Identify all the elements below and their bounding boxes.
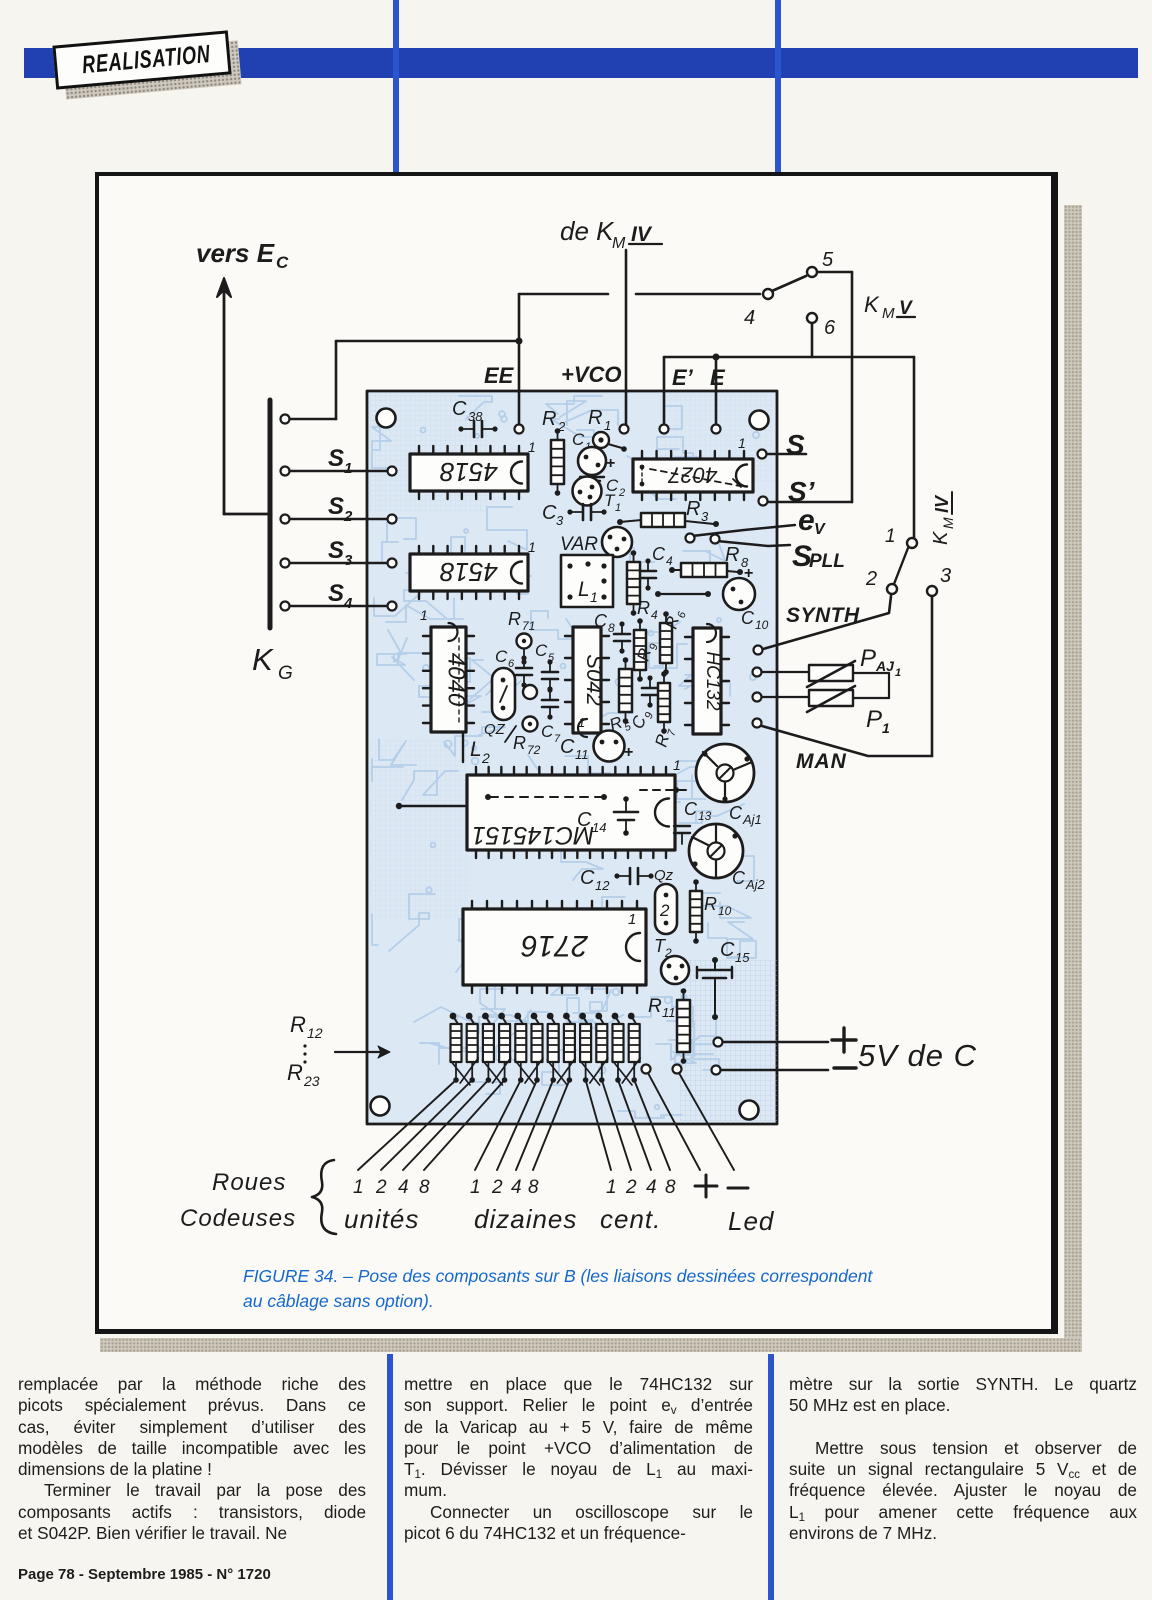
svg-text:C: C <box>741 608 755 628</box>
capacitor C15 <box>697 939 750 1020</box>
wire E net horizontal <box>664 354 914 539</box>
resistor R13 <box>466 1013 478 1083</box>
svg-text:EE: EE <box>484 363 515 388</box>
wire S1 <box>281 467 397 476</box>
svg-text:4: 4 <box>744 307 755 329</box>
resistor R7 <box>652 671 679 750</box>
svg-text:71: 71 <box>522 619 535 633</box>
svg-text:2716: 2716 <box>521 929 589 962</box>
pin SPLL junction <box>711 535 720 544</box>
svg-text:1: 1 <box>885 526 896 547</box>
potentiometer PAJ1 <box>753 661 890 687</box>
svg-text:C: C <box>572 430 585 449</box>
switch KM IV lever 1-2 <box>894 548 908 584</box>
switch KM V contact 6 <box>807 313 836 339</box>
svg-text:e: e <box>798 504 815 537</box>
svg-text:S: S <box>328 580 344 607</box>
svg-text:R: R <box>290 1012 306 1037</box>
wire ev <box>692 525 795 536</box>
svg-text:1: 1 <box>578 715 585 730</box>
capacitor C38 <box>452 398 498 437</box>
svg-text:L: L <box>470 738 482 761</box>
svg-text:S: S <box>328 493 344 520</box>
svg-text:+: + <box>744 565 753 582</box>
switch KM IV contact 1 <box>885 526 917 548</box>
switch KM V contact 5 <box>807 249 834 277</box>
resistor R11 <box>648 988 690 1064</box>
svg-text:E: E <box>710 365 726 390</box>
label L2 <box>470 738 490 766</box>
top column divider blue line 1 <box>393 0 399 173</box>
wire contact 6 to E net <box>811 323 814 357</box>
svg-text:10: 10 <box>718 904 732 918</box>
svg-text:8: 8 <box>665 1177 676 1198</box>
label dots <box>303 1044 306 1063</box>
svg-text:11: 11 <box>662 1005 676 1020</box>
capacitor C9 <box>628 675 658 732</box>
transistor T1 <box>573 477 622 515</box>
brace <box>312 1160 336 1234</box>
wire S <box>758 450 807 459</box>
svg-text:G: G <box>278 663 293 684</box>
capacitor C7 <box>541 687 561 745</box>
pin R71 <box>508 609 535 665</box>
label Roues <box>212 1169 286 1196</box>
svg-text:C: C <box>560 736 575 758</box>
svg-text:C: C <box>729 803 743 823</box>
mounting hole bottom-left <box>371 1097 390 1116</box>
wire E' vertical <box>663 357 666 427</box>
svg-text:C: C <box>720 939 735 961</box>
svg-text:C: C <box>594 611 608 631</box>
svg-text:5V de C: 5V de C <box>858 1038 977 1073</box>
svg-text:P: P <box>860 645 876 672</box>
svg-text:3: 3 <box>701 509 709 524</box>
wire roue line 6 <box>497 1080 537 1170</box>
svg-text:2: 2 <box>618 487 625 499</box>
label dizaines <box>474 1204 577 1234</box>
svg-text:4518: 4518 <box>440 557 498 587</box>
svg-text:72: 72 <box>527 743 541 757</box>
svg-text:1: 1 <box>673 757 681 773</box>
svg-text:4: 4 <box>398 1177 409 1198</box>
label Codeuses <box>180 1205 296 1232</box>
label S <box>786 429 805 460</box>
wire roue line 10 <box>602 1080 631 1170</box>
svg-text:S’: S’ <box>788 476 816 507</box>
wire roue line 11 <box>618 1080 651 1170</box>
resistor R20 <box>579 1013 591 1083</box>
IC S042 <box>565 627 609 737</box>
svg-text:2: 2 <box>491 1177 503 1198</box>
svg-text:2: 2 <box>343 508 353 525</box>
svg-text:6: 6 <box>508 658 515 670</box>
wire S2 <box>281 515 397 524</box>
svg-text:2: 2 <box>481 750 490 766</box>
label PAJ1 <box>860 645 901 679</box>
svg-text:cent.: cent. <box>600 1204 661 1234</box>
transistor T2 <box>654 936 689 984</box>
svg-text:R: R <box>588 407 602 429</box>
trimmer CAj2 <box>689 824 766 892</box>
IC 4027 <box>633 451 753 500</box>
wire S4 <box>281 602 397 611</box>
svg-text:V: V <box>899 298 913 319</box>
wire S3 <box>281 559 397 568</box>
pin Led minus <box>673 1065 682 1074</box>
svg-text:1: 1 <box>590 589 598 605</box>
REALISATION badge <box>52 30 231 89</box>
label S1 <box>328 445 352 477</box>
resistor R14 <box>482 1013 494 1083</box>
label R12 <box>290 1012 323 1041</box>
svg-text:1: 1 <box>615 502 621 514</box>
label SYNTH <box>786 604 860 627</box>
svg-text:C: C <box>452 398 467 420</box>
svg-text:4: 4 <box>511 1177 522 1198</box>
switch KM IV contact 3 <box>927 565 951 596</box>
svg-text:C: C <box>542 502 557 524</box>
bottom divider blue line 2 <box>768 1354 774 1600</box>
svg-text:+VCO: +VCO <box>561 362 622 387</box>
wire SYNTH <box>754 596 892 655</box>
wire roue line 8 <box>533 1080 569 1170</box>
svg-text:23: 23 <box>303 1073 320 1089</box>
svg-text:1: 1 <box>628 911 636 928</box>
svg-text:1: 1 <box>882 720 890 736</box>
wire roue line 3 <box>403 1080 488 1170</box>
svg-text:QZ: QZ <box>484 721 506 738</box>
resistor R15 <box>498 1013 510 1083</box>
top column divider blue line 2 <box>775 0 781 175</box>
transistor VAR <box>560 527 632 557</box>
svg-text:14: 14 <box>592 820 606 835</box>
wire -5V <box>721 1069 828 1072</box>
label Led <box>728 1206 775 1236</box>
svg-text:C: C <box>652 544 666 564</box>
pin -5V <box>712 1066 721 1075</box>
svg-text:K: K <box>864 292 880 317</box>
label S2 <box>328 493 353 525</box>
quartz Q2 oval <box>484 668 516 742</box>
svg-text:11: 11 <box>575 747 589 762</box>
capacitor C12 <box>580 867 654 893</box>
REALISATION badge shadow <box>62 40 241 99</box>
main figure frame <box>95 172 1058 1334</box>
label +5V de C <box>832 1028 977 1073</box>
label KG <box>252 642 293 684</box>
svg-text:1: 1 <box>895 667 901 679</box>
IC 4518 (second) <box>410 546 528 599</box>
resistor R5 <box>607 657 634 738</box>
capacitor C11 <box>560 731 633 763</box>
label EE <box>484 363 515 388</box>
svg-text:C: C <box>535 641 548 660</box>
svg-text:V: V <box>814 521 826 538</box>
wire lead tangle <box>450 1058 640 1085</box>
arrow R12-R23 <box>335 1046 390 1058</box>
figure caption <box>243 1264 963 1314</box>
svg-text:S: S <box>786 429 805 460</box>
resistor R72 <box>513 717 541 758</box>
svg-text:PLL: PLL <box>809 551 845 572</box>
label plus minus <box>695 1175 748 1197</box>
svg-text:6: 6 <box>824 317 836 339</box>
svg-text:MAN: MAN <box>796 750 847 773</box>
resistor R10 <box>690 879 732 944</box>
svg-text:L: L <box>578 578 590 601</box>
svg-text:M: M <box>612 235 626 252</box>
svg-text:C: C <box>732 868 746 888</box>
label unites-digits 1 2 4 8 <box>353 1177 430 1198</box>
label cent-digits 1 2 4 8 <box>606 1177 676 1198</box>
pin Led plus <box>642 1065 651 1074</box>
svg-text:4: 4 <box>343 595 353 612</box>
svg-text:1: 1 <box>604 418 611 433</box>
svg-text:4: 4 <box>651 608 658 622</box>
inductor L1 <box>561 555 613 607</box>
svg-text:1: 1 <box>528 539 536 555</box>
svg-text:R: R <box>513 733 526 753</box>
svg-text:M: M <box>882 305 895 322</box>
resistor R22 <box>612 1013 624 1083</box>
label ev <box>798 504 826 538</box>
svg-text:5: 5 <box>822 249 834 271</box>
svg-text:2: 2 <box>375 1177 387 1198</box>
svg-text:13: 13 <box>698 809 712 823</box>
svg-text:dizaines: dizaines <box>474 1204 577 1234</box>
resistor R3 <box>617 498 719 527</box>
capacitor C6 <box>495 647 532 688</box>
pin junction mid <box>523 685 537 699</box>
IC 4518 (first) <box>410 446 528 499</box>
svg-text:15: 15 <box>735 950 750 965</box>
wire MAN with contact 3 <box>753 596 933 756</box>
capacitor C10 <box>723 565 769 632</box>
wire EE to switch contact 4 <box>519 294 760 424</box>
pin +5V <box>714 1038 723 1047</box>
svg-text:1: 1 <box>344 460 352 477</box>
capacitor C4 <box>640 544 673 591</box>
svg-text:1: 1 <box>420 607 428 623</box>
label +VCO <box>561 362 622 387</box>
wire roue line 12 <box>634 1080 670 1170</box>
resistor R21 <box>595 1013 607 1083</box>
pin E <box>712 425 721 434</box>
svg-text:Aj1: Aj1 <box>742 812 762 827</box>
label KM V <box>864 292 915 322</box>
IC 4040 <box>423 623 474 732</box>
label MAN <box>796 750 847 773</box>
label S' <box>788 476 816 507</box>
resistor R6 <box>660 607 689 675</box>
capacitor C2 <box>580 476 625 499</box>
trimmer CAj1 <box>696 744 762 827</box>
svg-text:2: 2 <box>625 1177 637 1198</box>
svg-text:M: M <box>940 517 956 529</box>
svg-text:S: S <box>328 537 344 564</box>
svg-text:10: 10 <box>755 618 769 632</box>
resistor R2 <box>542 408 566 496</box>
label P1 <box>866 706 890 736</box>
IC 2716 <box>463 901 646 993</box>
svg-text:K: K <box>930 530 952 545</box>
capacitor C5 <box>535 641 558 692</box>
label R23 <box>287 1060 320 1089</box>
svg-text:IV: IV <box>932 494 952 513</box>
svg-text:R: R <box>508 609 521 629</box>
svg-text:R: R <box>704 894 717 914</box>
label dizaines-digits 1 2 4 8 <box>470 1177 539 1198</box>
label E <box>710 365 726 390</box>
wire roue line 1 <box>358 1080 456 1170</box>
svg-text:4: 4 <box>646 1177 657 1198</box>
bottom divider blue line 1 <box>387 1354 393 1600</box>
text column 3 <box>789 1374 1137 1544</box>
switch KM V lever 4-5 <box>772 276 806 291</box>
svg-text:R: R <box>287 1060 303 1085</box>
resistor R16 <box>514 1013 526 1083</box>
wire +5V <box>723 1041 828 1044</box>
svg-text:C: C <box>541 722 554 741</box>
wire vers Ec with up arrow <box>217 278 268 514</box>
mounting hole top-left <box>377 409 396 428</box>
svg-text:VAR: VAR <box>560 534 598 555</box>
svg-text:3: 3 <box>556 513 564 528</box>
svg-text:4518: 4518 <box>440 457 498 487</box>
main figure frame shadow bottom <box>100 1338 1082 1352</box>
quartz Qz oval <box>654 867 677 934</box>
svg-text:R: R <box>542 408 556 430</box>
label unites <box>344 1204 419 1234</box>
svg-text:S042: S042 <box>582 654 607 705</box>
bus bar KG <box>268 400 273 628</box>
svg-text:SYNTH: SYNTH <box>786 604 860 627</box>
wire 4040 to MC145151 <box>462 732 464 762</box>
pin ev junction <box>686 534 695 543</box>
text column 1 <box>18 1374 366 1544</box>
resistor R23 <box>628 1013 640 1083</box>
capacitor C14 <box>577 796 638 836</box>
svg-text:P: P <box>866 706 882 733</box>
main figure frame shadow right <box>1064 205 1082 1346</box>
svg-text:Aj2: Aj2 <box>745 877 766 892</box>
switch KM IV contact 2 <box>865 568 897 594</box>
wire roue line 9 <box>586 1080 611 1170</box>
pin E' <box>660 425 669 434</box>
svg-text:3: 3 <box>344 552 353 569</box>
svg-text:1: 1 <box>353 1177 364 1198</box>
resistor R8 <box>669 544 749 577</box>
svg-text:4: 4 <box>666 554 673 568</box>
blue header bar <box>24 48 1138 78</box>
svg-text:4027: 4027 <box>668 463 718 488</box>
svg-text:Qz: Qz <box>654 867 674 884</box>
wire roue line 4 <box>424 1080 505 1170</box>
IC MC145151 <box>467 767 690 858</box>
svg-text:vers E: vers E <box>196 238 275 268</box>
wire roue line 2 <box>381 1080 472 1170</box>
label Km IV (rotated) <box>930 492 956 545</box>
svg-text:3: 3 <box>940 565 951 587</box>
svg-text:1: 1 <box>738 435 746 451</box>
svg-text:8: 8 <box>528 1177 539 1198</box>
label de KM IV <box>560 216 662 252</box>
wire SPLL <box>717 541 790 546</box>
svg-text:AJ: AJ <box>875 658 895 674</box>
mounting hole bottom-right <box>740 1101 759 1120</box>
svg-text:C: C <box>276 253 289 272</box>
wire Led minus <box>679 1073 734 1170</box>
svg-text:R: R <box>686 498 700 520</box>
label E' <box>672 365 694 390</box>
svg-text:12: 12 <box>595 878 610 893</box>
page footer <box>18 1566 271 1583</box>
wire L1 to C10 <box>655 591 711 597</box>
svg-text:2: 2 <box>865 568 877 590</box>
svg-text:+: + <box>606 455 615 472</box>
resistor R1 <box>588 407 627 452</box>
svg-text:S: S <box>328 445 344 472</box>
svg-text:IV: IV <box>631 223 653 246</box>
wire roue line 5 <box>475 1080 521 1170</box>
svg-text:E’: E’ <box>672 365 694 390</box>
resistor R12 <box>450 1013 462 1083</box>
svg-text:Codeuses: Codeuses <box>180 1205 296 1232</box>
IC HC132 <box>685 624 729 734</box>
switch KM V contact 4 <box>744 289 773 329</box>
wire roue line 7 <box>516 1080 553 1170</box>
svg-text:C: C <box>577 809 592 831</box>
capacitor C8 <box>594 611 630 654</box>
label SPLL <box>792 540 845 573</box>
mounting hole top-right <box>750 411 769 430</box>
wire KG top to EE node <box>281 338 523 424</box>
svg-text:12: 12 <box>307 1025 323 1041</box>
wire to MC145151 pin <box>396 803 465 809</box>
capacitor C1 (varicap) <box>572 430 615 475</box>
svg-text:de K: de K <box>560 216 615 246</box>
wire Led plus <box>648 1073 700 1170</box>
resistor R9 <box>634 618 661 682</box>
resistor R17 <box>531 1013 543 1083</box>
wire S' <box>759 497 853 506</box>
potentiometer P1 <box>753 673 890 712</box>
svg-text:unités: unités <box>344 1204 419 1234</box>
svg-text:1: 1 <box>470 1177 481 1198</box>
label vers Ec <box>196 238 289 272</box>
capacitor C13 <box>674 799 712 844</box>
wire E vertical <box>715 357 718 427</box>
svg-text:1: 1 <box>528 439 536 455</box>
PCB board B outline <box>367 391 777 1124</box>
wire contact 5 to S-prime <box>817 272 852 502</box>
resistor R4 <box>627 550 658 622</box>
svg-text:K: K <box>252 642 274 677</box>
svg-text:MC145151: MC145151 <box>472 821 594 849</box>
resistor R19 <box>563 1013 575 1083</box>
svg-text:8: 8 <box>419 1177 430 1198</box>
pin +VCO <box>620 425 629 434</box>
svg-text:R: R <box>648 996 662 1017</box>
svg-text:1: 1 <box>606 1177 617 1198</box>
svg-text:HC132: HC132 <box>702 651 723 711</box>
svg-text:+: + <box>624 744 633 761</box>
label cent <box>600 1204 661 1234</box>
wire de KM IV down to +VCO pin <box>625 250 628 426</box>
resistor R18 <box>547 1013 559 1083</box>
svg-text:Led: Led <box>728 1206 775 1236</box>
